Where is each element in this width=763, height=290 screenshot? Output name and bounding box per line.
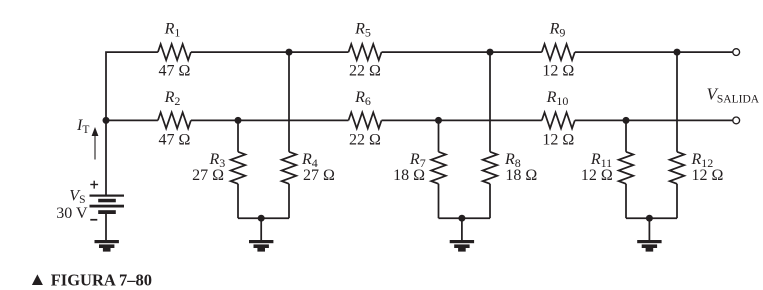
wire R7 top lead (438, 120, 440, 151)
resistor R10 (542, 112, 575, 128)
resistor R12 (670, 152, 685, 184)
wire top row R1 to R5 (191, 51, 349, 53)
resistor R11 (619, 152, 634, 184)
ground 2 (under R7/R8) (450, 240, 474, 252)
ground 1 (under R3/R4) (249, 240, 273, 252)
wire R3 bottom lead (237, 184, 239, 218)
output terminal bottom (733, 117, 740, 124)
wire R12 bottom lead (676, 184, 678, 218)
battery plus sign (90, 181, 98, 189)
svg-text:12 Ω: 12 Ω (542, 63, 574, 80)
svg-text:47 Ω: 47 Ω (158, 63, 190, 80)
resistor R2 (158, 112, 191, 128)
ground at source (95, 240, 119, 252)
resistor R8 (483, 152, 498, 184)
wire ground stub 1 (260, 218, 262, 240)
wire R4 bottom lead (288, 184, 290, 218)
wire R11 bottom lead (625, 184, 627, 218)
svg-text:R9: R9 (549, 20, 566, 39)
current arrow IT (92, 127, 99, 160)
wire second row left segment (106, 119, 158, 121)
resistor R5 (349, 44, 382, 60)
resistor R1 (158, 44, 191, 60)
wire top row R5 to R9 (382, 51, 542, 53)
svg-text:27 Ω: 27 Ω (303, 167, 335, 184)
svg-text:R10: R10 (546, 89, 569, 108)
svg-text:VSALIDA: VSALIDA (707, 84, 760, 105)
svg-text:27 Ω: 27 Ω (192, 167, 224, 184)
node dot bottom rail 2 (458, 215, 465, 222)
node dot top at R12 riser (674, 49, 681, 56)
wire R12 riser from top row (676, 52, 678, 152)
resistor R4 (282, 152, 297, 184)
svg-text:IT: IT (76, 117, 89, 136)
resistor R3 (231, 152, 246, 184)
battery minus sign (90, 219, 97, 221)
svg-text:VS: VS (69, 187, 85, 206)
wire second row R2 to R6 (191, 119, 349, 121)
wire top row R9 to output (575, 51, 733, 53)
resistor R9 (542, 44, 575, 60)
wire R8 bottom lead (489, 184, 491, 218)
resistor R7 (431, 152, 446, 184)
svg-text:18 Ω: 18 Ω (505, 167, 537, 184)
wire battery bottom lead (105, 214, 107, 241)
node dot bottom rail 3 (646, 215, 653, 222)
svg-text:22 Ω: 22 Ω (349, 63, 381, 80)
node dot bottom rail 1 (258, 215, 265, 222)
wire R11 top lead (625, 120, 627, 151)
node dot top at R4 riser (286, 49, 293, 56)
ground 3 (under R11/R12) (637, 240, 661, 252)
svg-text:30 V: 30 V (56, 205, 88, 222)
svg-text:R1: R1 (164, 20, 181, 39)
node dot top at R8 riser (487, 49, 494, 56)
wire ground stub 2 (461, 218, 463, 240)
node dot second row at R7 (435, 117, 442, 124)
battery VS plates (90, 195, 125, 215)
wire R7 bottom lead (438, 184, 440, 218)
svg-text:18 Ω: 18 Ω (393, 167, 425, 184)
wire second row R6 to R10 (382, 119, 542, 121)
svg-text:22 Ω: 22 Ω (349, 132, 381, 149)
resistor R6 (349, 112, 382, 128)
svg-text:R6: R6 (354, 89, 371, 108)
svg-text:47 Ω: 47 Ω (158, 132, 190, 149)
node dot second row at R11 (623, 117, 630, 124)
output terminal top (733, 49, 740, 56)
wire bottom rail 3 (626, 217, 677, 219)
wire R3 top lead (237, 120, 239, 151)
node dot second row at R3 (235, 117, 242, 124)
wire ground stub 3 (648, 218, 650, 240)
wire top row left segment (106, 52, 158, 194)
wire R4 riser from top row (288, 52, 290, 152)
svg-text:12 Ω: 12 Ω (581, 167, 613, 184)
wire bottom rail 2 (439, 217, 491, 219)
svg-text:R2: R2 (164, 89, 181, 108)
svg-text:12 Ω: 12 Ω (692, 167, 724, 184)
svg-text:12 Ω: 12 Ω (542, 132, 574, 149)
svg-text:FIGURA 7–80: FIGURA 7–80 (51, 270, 152, 289)
wire second row R10 to output (575, 119, 733, 121)
wire R8 riser from top row (489, 52, 491, 152)
wire bottom rail 1 (238, 217, 289, 219)
node dot second row at source (103, 117, 110, 124)
svg-text:R5: R5 (354, 20, 371, 39)
caption triangle (32, 274, 43, 285)
